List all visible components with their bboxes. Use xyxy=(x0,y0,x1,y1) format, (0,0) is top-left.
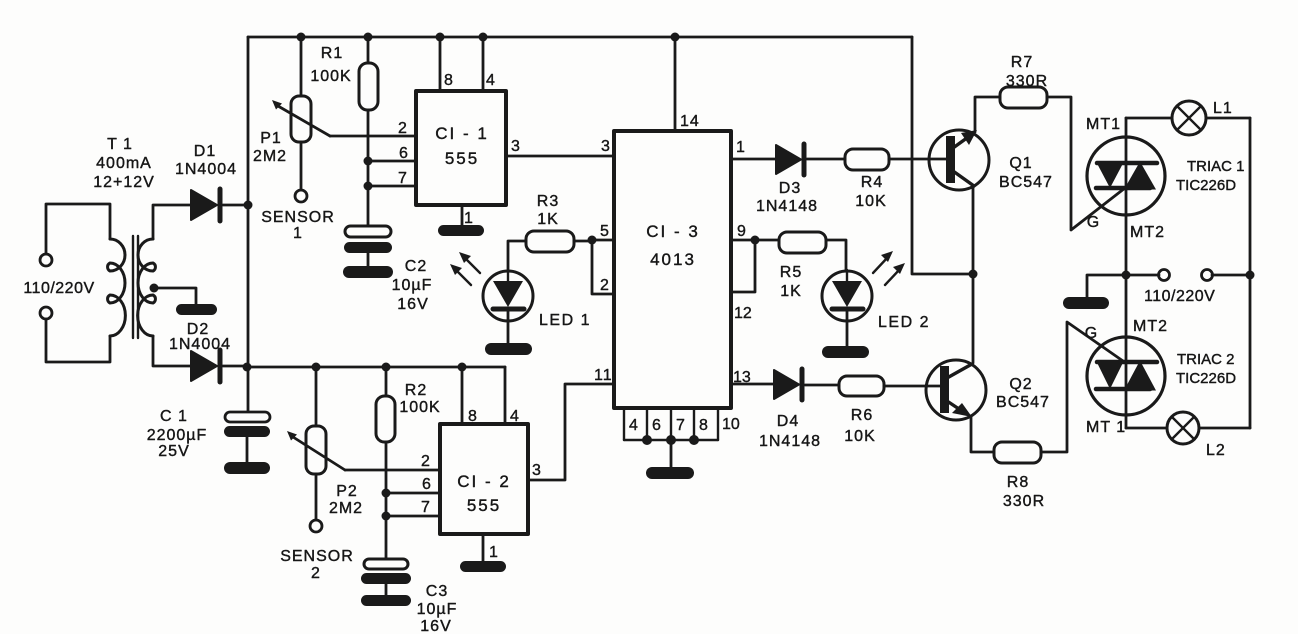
node: right vertical junction xyxy=(1246,271,1255,280)
svg-text:TIC226D: TIC226D xyxy=(1176,370,1236,387)
svg-text:D3: D3 xyxy=(779,180,801,197)
svg-text:4: 4 xyxy=(510,408,520,425)
svg-text:8: 8 xyxy=(699,417,708,434)
ground: C1 xyxy=(224,462,270,474)
svg-text:12: 12 xyxy=(734,305,752,322)
transistor Q1 BC547 xyxy=(929,97,1000,274)
wire: CI-3 pin 1 to D3 xyxy=(731,158,776,161)
svg-text:TRIAC 2: TRIAC 2 xyxy=(1177,351,1235,368)
svg-text:9: 9 xyxy=(737,223,746,240)
label: MT2 MT1 triac2 xyxy=(1086,318,1168,436)
lamp L1 xyxy=(1126,101,1250,135)
wire: secondary top to D1 xyxy=(153,205,191,239)
svg-text:10: 10 xyxy=(722,416,740,433)
terminal: AC output left xyxy=(1159,270,1170,281)
svg-text:L2: L2 xyxy=(1206,442,1226,459)
transformer T1 secondary winding xyxy=(138,239,156,336)
svg-text:12+12V: 12+12V xyxy=(93,174,155,191)
LED2 xyxy=(822,270,872,347)
terminal: AC input top xyxy=(40,254,52,266)
svg-text:2: 2 xyxy=(600,277,609,294)
terminal: AC input bottom xyxy=(40,307,52,319)
resistor R2 xyxy=(376,367,395,560)
wire: secondary bottom to D2 xyxy=(153,336,191,366)
label: C3 10uF 16V xyxy=(417,583,458,634)
node: secondary center tap xyxy=(150,284,159,293)
node: CI-2 pin 6 junction xyxy=(382,489,391,498)
svg-text:SENSOR: SENSOR xyxy=(261,209,335,226)
svg-text:R2: R2 xyxy=(405,382,427,399)
node: MT2 junction xyxy=(1122,271,1131,280)
svg-text:R1: R1 xyxy=(321,45,343,62)
resistor R1 xyxy=(359,37,378,227)
label: pins 5 and 2 xyxy=(600,223,609,294)
svg-text:330R: 330R xyxy=(1003,493,1045,510)
svg-text:LED 1: LED 1 xyxy=(539,312,591,329)
wire: CI-3 pin 13 to D4 xyxy=(731,383,774,386)
svg-text:CI - 2: CI - 2 xyxy=(457,472,511,491)
node: D1 cathode junction xyxy=(244,201,253,210)
svg-text:8: 8 xyxy=(468,408,478,425)
svg-text:1K: 1K xyxy=(537,211,559,228)
ground: CI-3 xyxy=(646,467,694,479)
transformer T1 primary winding xyxy=(108,239,126,336)
label: R1 100K xyxy=(310,45,351,85)
svg-text:110/220V: 110/220V xyxy=(1144,288,1215,305)
svg-text:16V: 16V xyxy=(420,618,451,634)
svg-text:MT1: MT1 xyxy=(1086,116,1121,133)
wire: CI-2 pin 8 xyxy=(461,367,464,424)
svg-text:T 1: T 1 xyxy=(107,136,133,153)
resistor R8 xyxy=(994,322,1123,463)
label: D4 1N4148 xyxy=(759,413,821,450)
svg-text:2M2: 2M2 xyxy=(253,148,287,165)
wire: CI-1 pin 1 to ground xyxy=(461,205,464,227)
svg-text:2: 2 xyxy=(421,453,431,470)
svg-text:25V: 25V xyxy=(158,443,189,460)
transistor Q2 BC547 xyxy=(926,274,994,452)
label: D3 1N4148 xyxy=(756,180,818,215)
triac TRIAC1 TIC226D xyxy=(1087,118,1165,275)
svg-text:13: 13 xyxy=(733,369,751,386)
potentiometer P2 xyxy=(287,367,345,520)
svg-text:400mA: 400mA xyxy=(96,155,152,172)
label: R4 10K xyxy=(855,174,886,210)
wire: CI-3 pin 5 xyxy=(592,239,614,242)
wire: CI-3 bottom pins comb xyxy=(624,408,718,440)
svg-text:8: 8 xyxy=(444,72,454,89)
label: TRIAC 1 TIC226D xyxy=(1176,158,1245,194)
svg-text:14: 14 xyxy=(680,113,700,130)
svg-text:C 1: C 1 xyxy=(160,408,188,425)
wire: +V lower rail xyxy=(247,366,505,369)
svg-text:P2: P2 xyxy=(336,483,358,500)
diode D4 xyxy=(774,369,839,400)
svg-text:R8: R8 xyxy=(1007,474,1029,491)
ground: LED2 xyxy=(822,346,869,358)
svg-text:TIC226D: TIC226D xyxy=(1176,177,1236,194)
svg-text:3: 3 xyxy=(601,138,610,155)
svg-text:2200µF: 2200µF xyxy=(147,427,208,444)
resistor R7 xyxy=(1000,87,1125,230)
diode D3 xyxy=(776,144,846,175)
label: R5 1K xyxy=(780,264,802,300)
label: SENSOR 2 xyxy=(280,548,354,582)
svg-text:2: 2 xyxy=(398,120,408,137)
svg-text:1N4004: 1N4004 xyxy=(175,161,237,178)
svg-text:1: 1 xyxy=(736,139,745,156)
wire: CI-2 pin 6 xyxy=(386,492,440,495)
op IC CI-1 555 xyxy=(416,91,506,205)
lamp L2 xyxy=(1126,412,1250,444)
svg-text:110/220V: 110/220V xyxy=(23,280,94,297)
svg-text:555: 555 xyxy=(467,496,501,515)
wire: CI-1 pin 8 xyxy=(439,37,442,91)
svg-text:R3: R3 xyxy=(537,193,559,210)
label: transformer T1 xyxy=(93,136,155,191)
label: Q1 BC547 xyxy=(999,155,1053,191)
svg-text:4013: 4013 xyxy=(650,250,696,269)
node: pin 9 junction xyxy=(751,236,760,245)
label: CI-1 pin numbers xyxy=(398,72,521,227)
wire: CI-3 ground stub xyxy=(670,440,673,468)
svg-text:1N4004: 1N4004 xyxy=(169,336,231,353)
svg-text:2: 2 xyxy=(311,565,321,582)
terminal: sensor 1 xyxy=(295,190,307,202)
svg-text:1: 1 xyxy=(464,210,474,227)
svg-text:7: 7 xyxy=(398,170,408,187)
ground: center tap xyxy=(176,304,217,315)
label: R2 100K xyxy=(399,382,440,416)
svg-text:LED 2: LED 2 xyxy=(878,314,930,331)
wire: CI-2 pin 4 xyxy=(504,367,507,424)
op IC CI-2 555 xyxy=(440,424,528,534)
svg-text:R5: R5 xyxy=(780,264,802,281)
node: collector junction xyxy=(969,270,978,279)
ground: CI-1 pin 1 xyxy=(438,225,484,236)
node: CI-2 pin 7 junction xyxy=(382,512,391,521)
IC CI-3 4013 xyxy=(614,131,731,408)
label: pins 4 6 7 8 10 xyxy=(629,416,740,434)
node: pin 7 junction xyxy=(364,182,373,191)
label: CI-2 pin numbers xyxy=(421,408,542,561)
svg-text:G: G xyxy=(1087,214,1099,231)
label: R6 10K xyxy=(844,407,875,445)
wire: AC input to primary top xyxy=(46,204,110,254)
wire: CI-2 pin 1 to ground xyxy=(482,534,485,562)
resistor R5 xyxy=(779,232,846,270)
diode D1 xyxy=(191,189,248,221)
label: R7 330R xyxy=(1006,54,1048,90)
ground: C3 xyxy=(361,595,411,606)
wire: junction to output terminal left xyxy=(1126,274,1159,277)
wire: CI-1 pin 4 xyxy=(482,37,485,91)
svg-text:10K: 10K xyxy=(844,428,875,445)
svg-text:P1: P1 xyxy=(260,130,282,147)
capacitor C1 xyxy=(224,412,270,462)
wire: AC input to primary bottom xyxy=(46,319,110,362)
node: lower rail junctions xyxy=(312,363,467,372)
svg-text:555: 555 xyxy=(445,149,479,168)
wire: CI-1 pin 3 to CI-3 pin 3 xyxy=(506,155,614,158)
wire: CI-3 pin 14 xyxy=(674,37,677,131)
svg-text:6: 6 xyxy=(399,145,409,162)
svg-text:R6: R6 xyxy=(851,407,873,424)
svg-text:7: 7 xyxy=(676,417,685,434)
svg-text:D1: D1 xyxy=(194,143,216,160)
node: bottom pin junctions xyxy=(642,435,699,445)
svg-text:1: 1 xyxy=(489,544,499,561)
diode D2 xyxy=(191,350,247,382)
ground: C2 xyxy=(343,266,393,278)
svg-text:11: 11 xyxy=(594,367,613,384)
label: pins 9 and 12 xyxy=(734,223,752,322)
svg-text:1N4148: 1N4148 xyxy=(759,433,821,450)
label: R3 1K xyxy=(537,193,559,228)
svg-text:TRIAC 1: TRIAC 1 xyxy=(1187,158,1245,175)
svg-text:C3: C3 xyxy=(426,583,448,600)
triac TRIAC2 TIC226D xyxy=(1087,275,1165,428)
svg-text:D4: D4 xyxy=(777,413,799,430)
wire: center tap to ground xyxy=(154,288,196,304)
svg-text:5: 5 xyxy=(600,223,609,240)
svg-text:1K: 1K xyxy=(780,283,802,300)
capacitor C2 xyxy=(344,226,392,266)
terminal: sensor 2 xyxy=(310,520,322,532)
node: D2 cathode junction xyxy=(243,363,252,372)
terminal: AC output right xyxy=(1202,270,1213,281)
label: P1 2M2 xyxy=(253,130,287,165)
svg-text:10µF: 10µF xyxy=(392,277,433,294)
label: TRIAC 2 TIC226D xyxy=(1176,351,1236,387)
svg-text:CI - 3: CI - 3 xyxy=(646,222,700,241)
wire: +V top rail xyxy=(248,36,912,39)
label: D2 1N4004 xyxy=(169,321,231,353)
svg-text:Q2: Q2 xyxy=(1009,376,1032,393)
svg-text:BC547: BC547 xyxy=(996,394,1050,411)
node: pin 6 junction xyxy=(364,157,373,166)
svg-text:C2: C2 xyxy=(405,258,427,275)
wire: rail drop to transistors xyxy=(912,37,973,274)
svg-text:6: 6 xyxy=(422,476,432,493)
wire: CI-3 pin 9 to R5 xyxy=(731,239,778,242)
wire: main vertical bus (D1/D2 to +V rail and C1) xyxy=(247,37,250,413)
svg-text:6: 6 xyxy=(652,417,661,434)
svg-text:MT 1: MT 1 xyxy=(1086,419,1126,436)
wire: CI-1 pin 7 xyxy=(368,185,416,188)
svg-text:100K: 100K xyxy=(310,68,351,85)
svg-text:R4: R4 xyxy=(861,174,883,191)
label: D1 1N4004 xyxy=(175,143,237,178)
label: MT1 MT2 triac1 xyxy=(1086,116,1165,241)
wire: CI-3 pin 2 stub xyxy=(592,240,614,294)
svg-text:16V: 16V xyxy=(397,296,428,313)
ground: output common xyxy=(1063,297,1109,309)
LED1 light arrows xyxy=(450,252,480,285)
resistor R4 xyxy=(845,149,946,170)
potentiometer P1 xyxy=(272,37,330,190)
svg-text:G: G xyxy=(1085,325,1097,342)
svg-text:CI - 1: CI - 1 xyxy=(435,124,489,143)
svg-text:MT2: MT2 xyxy=(1133,318,1168,335)
svg-text:4: 4 xyxy=(629,417,638,434)
svg-text:100K: 100K xyxy=(399,399,440,416)
svg-text:MT2: MT2 xyxy=(1130,224,1165,241)
LED1 xyxy=(483,271,533,344)
label: Q2 BC547 xyxy=(996,376,1050,411)
wire: CI-2 pin 7 xyxy=(386,515,440,518)
svg-text:4: 4 xyxy=(486,72,496,89)
LED2 light arrows xyxy=(873,251,905,285)
label: P2 2M2 xyxy=(329,483,363,517)
node: pin 5 junction xyxy=(588,236,597,245)
wire: CI-1 pin 2 xyxy=(330,135,416,138)
wire: CI-2 pin 2 xyxy=(345,469,440,472)
svg-text:Q1: Q1 xyxy=(1009,155,1032,172)
label: R8 330R xyxy=(1003,474,1045,510)
svg-text:7: 7 xyxy=(421,499,431,516)
wire: CI-1 pin 6 xyxy=(368,160,416,163)
label: C1 2200uF 25V xyxy=(147,408,208,460)
ground: CI-2 pin 1 xyxy=(460,561,506,572)
node: top rail junctions xyxy=(297,33,680,42)
svg-text:SENSOR: SENSOR xyxy=(280,548,354,565)
svg-text:3: 3 xyxy=(511,138,521,155)
transformer T1 core xyxy=(132,236,134,338)
wire: right mains vertical xyxy=(1249,118,1252,428)
label: C2 10uF 16V xyxy=(392,258,433,313)
svg-text:3: 3 xyxy=(532,462,542,479)
wire: junction to ground xyxy=(1087,275,1126,298)
svg-text:10K: 10K xyxy=(855,193,886,210)
label: SENSOR 1 xyxy=(261,209,335,242)
resistor R3 xyxy=(508,231,592,271)
resistor R6 xyxy=(839,376,941,396)
wire: CI-2 pin 3 to CI-3 pin 11 xyxy=(528,384,614,480)
svg-text:BC547: BC547 xyxy=(999,174,1053,191)
svg-text:330R: 330R xyxy=(1006,73,1048,90)
ground: LED1 xyxy=(485,343,532,355)
svg-text:L1: L1 xyxy=(1213,100,1233,117)
svg-text:1: 1 xyxy=(293,225,303,242)
svg-text:R7: R7 xyxy=(1011,54,1033,71)
capacitor C3 xyxy=(361,559,411,596)
svg-text:10µF: 10µF xyxy=(417,601,458,618)
wire: output terminal right to vertical xyxy=(1212,274,1250,277)
svg-text:1N4148: 1N4148 xyxy=(756,198,818,215)
svg-text:2M2: 2M2 xyxy=(329,500,363,517)
wire: CI-3 pin 12 stub xyxy=(731,240,755,292)
